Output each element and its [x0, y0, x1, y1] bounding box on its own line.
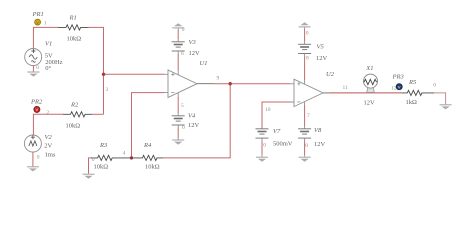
svg-text:R5: R5 [408, 79, 417, 86]
svg-text:0: 0 [433, 83, 436, 89]
svg-text:PR2: PR2 [30, 99, 43, 106]
svg-text:1: 1 [44, 20, 47, 26]
svg-text:V7: V7 [273, 128, 281, 135]
svg-text:0: 0 [37, 155, 40, 161]
svg-text:0: 0 [36, 65, 39, 71]
svg-text:2: 2 [47, 110, 50, 116]
svg-text:X1: X1 [365, 65, 373, 72]
svg-text:0: 0 [182, 27, 185, 33]
svg-text:12: 12 [391, 85, 397, 91]
svg-text:12V: 12V [316, 55, 328, 62]
svg-text:R1: R1 [69, 14, 77, 21]
svg-text:PR1: PR1 [32, 11, 44, 18]
svg-text:12V: 12V [189, 50, 201, 57]
svg-text:V1: V1 [45, 41, 52, 48]
svg-text:1kΩ: 1kΩ [406, 99, 418, 106]
svg-text:0: 0 [92, 157, 95, 163]
svg-text:V3: V3 [189, 39, 197, 46]
svg-text:12V: 12V [188, 122, 200, 129]
svg-text:0: 0 [263, 142, 266, 148]
svg-text:500mV: 500mV [273, 141, 293, 148]
svg-text:2V: 2V [44, 143, 52, 150]
svg-text:U1: U1 [200, 60, 208, 67]
svg-text:12V: 12V [314, 141, 326, 148]
svg-text:10kΩ: 10kΩ [67, 36, 82, 43]
svg-text:0: 0 [306, 31, 309, 37]
svg-text:0: 0 [305, 143, 308, 149]
svg-text:V4: V4 [188, 113, 196, 120]
svg-text:0°: 0° [45, 65, 51, 72]
svg-text:1ms: 1ms [45, 152, 56, 159]
svg-text:V8: V8 [314, 127, 322, 134]
svg-text:12V: 12V [364, 100, 376, 107]
svg-text:V5: V5 [317, 44, 325, 51]
svg-text:9: 9 [217, 75, 220, 81]
svg-text:10: 10 [265, 107, 271, 113]
svg-text:3: 3 [106, 87, 109, 93]
svg-text:5: 5 [181, 103, 184, 109]
svg-text:4: 4 [123, 150, 126, 156]
svg-text:6: 6 [181, 51, 184, 57]
svg-text:8: 8 [306, 55, 309, 61]
svg-text:0: 0 [182, 125, 185, 131]
svg-text:10kΩ: 10kΩ [145, 164, 160, 171]
svg-text:7: 7 [307, 113, 310, 119]
svg-text:V2: V2 [45, 134, 53, 141]
svg-text:V: V [398, 85, 401, 90]
svg-text:PR3: PR3 [392, 74, 405, 81]
svg-text:U2: U2 [326, 71, 335, 78]
svg-text:10kΩ: 10kΩ [94, 164, 109, 171]
svg-text:R3: R3 [99, 142, 108, 149]
svg-text:11: 11 [343, 85, 349, 91]
svg-text:10kΩ: 10kΩ [66, 122, 81, 129]
svg-text:R2: R2 [70, 101, 79, 108]
svg-text:R4: R4 [143, 142, 152, 149]
